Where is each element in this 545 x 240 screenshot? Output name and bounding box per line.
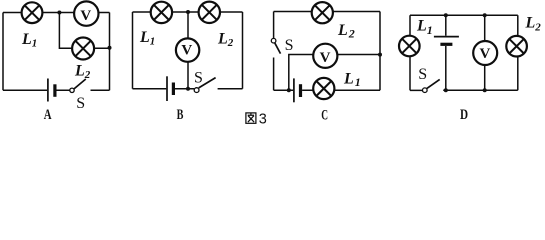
svg-text:L2: L2 bbox=[525, 15, 542, 34]
svg-text:S: S bbox=[194, 69, 203, 86]
svg-text:L1: L1 bbox=[343, 71, 361, 90]
svg-text:V: V bbox=[80, 8, 91, 24]
svg-text:L2: L2 bbox=[74, 63, 91, 82]
svg-text:L1: L1 bbox=[416, 17, 433, 36]
svg-text:L1: L1 bbox=[139, 29, 155, 48]
svg-text:L2: L2 bbox=[217, 31, 234, 50]
svg-text:S: S bbox=[418, 66, 427, 83]
svg-text:V: V bbox=[320, 50, 331, 66]
svg-text:S: S bbox=[285, 37, 294, 54]
svg-text:B: B bbox=[177, 107, 184, 123]
svg-text:A: A bbox=[44, 107, 52, 123]
svg-text:V: V bbox=[181, 43, 192, 59]
svg-text:D: D bbox=[460, 107, 468, 123]
svg-text:S: S bbox=[76, 95, 85, 112]
svg-text:L2: L2 bbox=[337, 22, 355, 41]
svg-text:3: 3 bbox=[259, 112, 267, 128]
svg-text:V: V bbox=[479, 46, 490, 62]
svg-text:C: C bbox=[321, 108, 328, 124]
svg-text:L1: L1 bbox=[21, 31, 37, 50]
